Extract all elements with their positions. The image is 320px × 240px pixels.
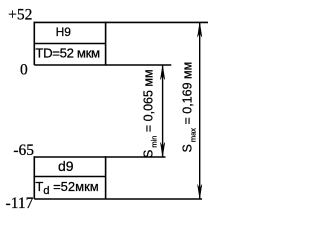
svg-text:+52: +52 [8,7,32,24]
svg-text:Smin = 0,065 мм: Smin = 0,065 мм [142,69,159,158]
svg-text:Smax = 0,169 мм: Smax = 0,169 мм [181,62,198,153]
svg-text:Td =52мкм: Td =52мкм [35,179,98,197]
svg-text:0: 0 [20,61,28,78]
svg-text:H9: H9 [56,25,72,39]
svg-text:-65: -65 [13,142,34,159]
svg-text:-117: -117 [6,195,34,212]
svg-text:d9: d9 [58,158,74,174]
svg-text:TD=52 мкм: TD=52 мкм [35,46,100,61]
